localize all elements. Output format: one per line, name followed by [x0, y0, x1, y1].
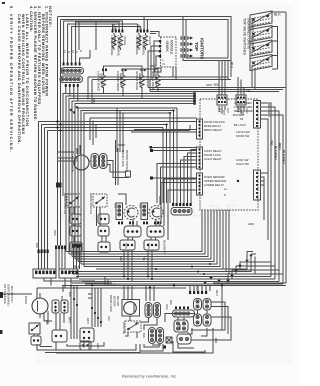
left cluster b [70, 226, 81, 236]
wire N left vertical [60, 20, 62, 184]
svg-text:LOCK SW: LOCK SW [236, 158, 249, 162]
micro wire labels [35, 25, 251, 325]
wires from valve pins up [64, 17, 148, 63]
junction dots bus2 [70, 263, 211, 287]
svg-text:OVEN: OVEN [24, 296, 28, 304]
svg-text:DOOR LOCK: DOOR LOCK [121, 150, 125, 167]
svg-text:WHT: WHT [215, 290, 219, 296]
svg-text:GRY: GRY [226, 108, 229, 114]
bottom mid verticals [37, 286, 210, 340]
svg-text:BLK: BLK [169, 300, 173, 305]
svg-text:RED: RED [112, 25, 116, 31]
svg-text:N: N [163, 62, 165, 66]
bottom left switch [29, 323, 40, 334]
control top connector 2 [236, 95, 246, 105]
svg-text:MODULE: MODULE [170, 40, 174, 55]
svg-text:900 SWITCH: 900 SWITCH [10, 286, 14, 302]
svg-text:CAN CAUSE IMPROPER AND DANGERO: CAN CAUSE IMPROPER AND DANGEROUS OPERATI… [17, 14, 21, 144]
svg-text:DOOR SWITCH: DOOR SWITCH [89, 193, 93, 214]
svg-text:BLK: BLK [218, 108, 221, 113]
svg-text:BLK: BLK [35, 243, 39, 248]
door lock feed wires [58, 108, 124, 196]
svg-text:TOP: TOP [194, 42, 199, 51]
wires pins to blocks [39, 247, 80, 269]
door switch dashed box 1 [63, 193, 81, 214]
control top connector 1 [217, 95, 227, 105]
svg-text:LIGHT SW: LIGHT SW [236, 162, 249, 166]
bottom mid cluster [80, 328, 94, 342]
svg-text:LOWER OVEN: LOWER OVEN [234, 105, 252, 109]
upper oven ignitor [139, 203, 164, 220]
bottom extra stubs [63, 286, 207, 321]
left power connector block 1 [33, 269, 56, 278]
lower left connector row 1 [61, 68, 84, 75]
svg-text:N: N [224, 193, 226, 197]
top valve switch 4 [250, 55, 272, 71]
strip2 fan wires [157, 150, 197, 204]
svg-text:UPPER OVEN: UPPER OVEN [234, 101, 252, 105]
top connector tails [219, 106, 244, 114]
bottom left circle lamp [3, 284, 48, 314]
svg-text:BROIL RELAY: BROIL RELAY [204, 128, 222, 132]
connector above ignitors [171, 208, 192, 216]
lower coil pins [102, 69, 146, 72]
junction dots left cross [56, 120, 61, 131]
door lock switch dashed box [122, 321, 141, 335]
wire left vertical lower [57, 188, 59, 246]
svg-text:BLK: BLK [142, 333, 146, 338]
lower broil valve coil [119, 33, 123, 50]
svg-text:GRN: GRN [248, 222, 254, 226]
risers to bus [70, 194, 160, 282]
lower left connector pins top [63, 63, 81, 66]
svg-text:IGNITORS: IGNITORS [200, 38, 205, 59]
svg-text:RELAY BOARD: RELAY BOARD [234, 109, 253, 113]
valve group 1 pins [112, 30, 124, 33]
left cluster c [98, 226, 109, 236]
pin squares above blocks [38, 244, 81, 254]
extra control text [224, 101, 254, 226]
svg-text:BLK: BLK [60, 296, 64, 301]
svg-text:WHT: WHT [86, 318, 90, 324]
left edge mark [0, 292, 3, 298]
svg-text:GRN: GRN [147, 243, 151, 249]
wires below blocks [44, 278, 110, 288]
svg-text:VALVE: VALVE [123, 36, 127, 45]
switch link wires [272, 12, 286, 69]
lower cluster row [70, 240, 159, 252]
oven control dashed box [200, 99, 258, 210]
top ignitors box [183, 17, 231, 61]
bottom right cluster low 2 [177, 334, 191, 344]
svg-text:GRY: GRY [137, 25, 141, 31]
wires fan region [58, 145, 130, 178]
svg-text:BLK: BLK [274, 13, 281, 17]
lower bake valve coil [112, 33, 116, 50]
control right connector strip 1 [254, 101, 261, 129]
ignitor connector 1 [124, 226, 141, 237]
svg-text:5. VERIFY PROPER OPERATION AFT: 5. VERIFY PROPER OPERATION AFTER SERVICI… [9, 6, 13, 152]
svg-text:MOTOR SWITCH: MOTOR SWITCH [125, 150, 129, 172]
svg-text:UPPER BROIL: UPPER BROIL [142, 36, 146, 57]
svg-text:Rendered by LeadVenture, Inc.: Rendered by LeadVenture, Inc. [122, 374, 177, 379]
right wire bundle [261, 103, 284, 284]
svg-text:RED: RED [119, 256, 123, 262]
left cluster a [70, 214, 81, 224]
wires to spark top [150, 32, 159, 38]
convection fan [71, 152, 90, 172]
svg-text:DOOR LOCK: DOOR LOCK [109, 295, 113, 312]
bottom right cluster low 1 [174, 320, 188, 332]
svg-text:VALVE: VALVE [113, 36, 117, 45]
pin row above ignitors [172, 203, 192, 206]
door lock motor wires [116, 140, 126, 185]
junction left [56, 183, 62, 188]
svg-text:BLK/WHT: BLK/WHT [274, 146, 278, 160]
svg-text:900 SW: 900 SW [116, 296, 120, 306]
control left connector strip 1 [197, 119, 203, 139]
svg-text:HOT SURFACE: HOT SURFACE [3, 284, 7, 304]
svg-text:FAN: FAN [75, 156, 79, 162]
bottom right wires [165, 302, 231, 348]
wire box right verticals [227, 61, 229, 80]
svg-text:IGN: IGN [139, 203, 143, 208]
svg-text:BLK: BLK [74, 265, 81, 269]
svg-text:SPARK: SPARK [165, 41, 169, 53]
mid nested wire bundle [63, 94, 193, 267]
wire left vertical lower 2 [60, 188, 62, 246]
wire top horizontal 1 [58, 16, 232, 18]
svg-text:WHT: WHT [68, 317, 72, 323]
top valve switch 2 [250, 26, 272, 42]
bottom center clusters low [52, 328, 164, 344]
bottom left cluster 2 [31, 336, 41, 345]
control inner labels [204, 120, 226, 187]
door switch dashed box 2 [89, 193, 107, 214]
junction dots bus [73, 180, 239, 323]
svg-text:BLK/WHT: BLK/WHT [282, 150, 286, 164]
svg-text:DOOR SWITCH: DOOR SWITCH [63, 193, 67, 214]
svg-text:MOTOR: MOTOR [113, 296, 117, 306]
bottom extra labels [45, 286, 199, 349]
svg-text:VIO: VIO [107, 316, 111, 320]
svg-text:YEL: YEL [142, 256, 146, 261]
bottom right pin squares [189, 291, 207, 294]
latch box [126, 171, 131, 177]
lower ignitor coil 1 [102, 73, 106, 90]
bottom right connector pair 1 [194, 299, 212, 311]
top valve switch 3 [250, 40, 272, 56]
door lock motor box [109, 295, 140, 316]
svg-text:B: B [79, 50, 83, 52]
svg-text:WHT: WHT [222, 110, 225, 116]
svg-text:DOOR SW: DOOR SW [236, 134, 250, 138]
corner mark [2, 2, 5, 4]
left power connector block 2 [59, 269, 78, 278]
watermark [59, 201, 242, 226]
BLK wire right side [213, 12, 286, 283]
svg-text:L1: L1 [224, 187, 227, 191]
svg-text:LOCK SW: LOCK SW [122, 322, 126, 335]
top valve switch 1 [250, 11, 272, 27]
wire top horizontal 2 [61, 19, 229, 21]
svg-text:BLK: BLK [68, 292, 72, 297]
notice text [9, 6, 52, 152]
main bus lines [3, 252, 286, 295]
right bundle labels [270, 140, 286, 164]
svg-text:IGNITOR (BAKE): IGNITOR (BAKE) [7, 284, 11, 306]
wires from top connectors up [219, 61, 244, 96]
spark module [159, 37, 176, 67]
svg-text:BK LOCK: BK LOCK [234, 123, 246, 127]
lower ignitor coil 4 [156, 73, 160, 90]
svg-text:LATCH SW: LATCH SW [236, 130, 250, 134]
svg-text:VALVE: VALVE [148, 36, 152, 45]
strip1 feed pins [193, 92, 196, 104]
ignitor bottom pins [118, 222, 159, 225]
valve group 2 pins [137, 30, 149, 33]
control left connector strip 3 [197, 173, 203, 195]
right mid horizontals [88, 77, 286, 103]
cluster below mid [80, 341, 91, 350]
svg-text:IGN: IGN [114, 203, 118, 208]
svg-text:IGN: IGN [195, 286, 199, 291]
svg-text:LOWER RELAY: LOWER RELAY [204, 183, 224, 187]
right bundle bottom corners [228, 262, 283, 284]
svg-text:BLK/WHT: BLK/WHT [163, 240, 167, 254]
X box [163, 337, 172, 349]
mid horizontals lower [39, 118, 197, 250]
wire L1 left vertical [57, 17, 59, 183]
junction arrows [203, 255, 252, 285]
svg-text:BLK/WHT: BLK/WHT [233, 113, 245, 117]
svg-text:LIGHT RELAY: LIGHT RELAY [204, 157, 222, 161]
control left connector strip 2 [197, 147, 203, 169]
wires below left connector [66, 87, 78, 101]
lower ignitor coil 3 [140, 73, 144, 90]
upper broil valve coil [144, 33, 148, 50]
svg-text:RED: RED [278, 143, 282, 150]
svg-text:TOP VALVE SWITCHES: TOP VALVE SWITCHES [243, 18, 247, 56]
lower oven ignitor [114, 203, 139, 220]
strip3 fan wires [131, 130, 197, 241]
svg-text:GRN: GRN [96, 343, 100, 349]
svg-text:N: N [67, 51, 71, 53]
fan connectors [91, 154, 107, 169]
bottom right strip connector [173, 307, 195, 318]
feed wires left [152, 148, 197, 179]
lower ignitor coil 2 [121, 73, 125, 90]
feed pins left [150, 146, 154, 180]
arrow junctions center [165, 110, 175, 127]
arrow junctions mid [69, 106, 78, 114]
svg-text:BRN: BRN [92, 98, 96, 104]
control right connector strip 2 [254, 170, 261, 200]
svg-text:LOWER BROIL: LOWER BROIL [117, 36, 121, 57]
svg-text:YEL: YEL [246, 89, 251, 93]
bottom left clusters [52, 300, 68, 313]
bottom center clusters right [145, 303, 161, 318]
bottom right connector pair 2 [194, 314, 212, 326]
svg-text:P2: P2 [240, 117, 244, 121]
switch drop wires [250, 27, 255, 90]
svg-text:YEL: YEL [270, 140, 274, 146]
bottom wires [34, 286, 222, 354]
left cluster a2 [98, 214, 109, 224]
svg-text:GRN: GRN [165, 304, 169, 310]
svg-text:GRN: GRN [206, 83, 212, 87]
left edge mark 2 [0, 330, 3, 334]
svg-text:ORN: ORN [53, 230, 57, 236]
pin box upper broil [155, 68, 161, 72]
svg-text:GRN: GRN [124, 243, 128, 249]
svg-text:CONVECTION: CONVECTION [71, 152, 75, 172]
upper bake valve coil [137, 33, 141, 50]
top ignitor elements [181, 36, 190, 58]
lower left connector row 2 [60, 76, 83, 83]
lower left connector pins bottom [65, 84, 79, 87]
below-box nested corners [66, 210, 229, 274]
svg-text:BLK: BLK [45, 320, 49, 325]
svg-text:A: A [75, 51, 79, 53]
wires lower coils to spark module [104, 41, 177, 99]
top valve switches label [243, 18, 255, 56]
svg-text:VALVE: VALVE [138, 36, 142, 45]
ignitor connector 2 [147, 226, 164, 237]
